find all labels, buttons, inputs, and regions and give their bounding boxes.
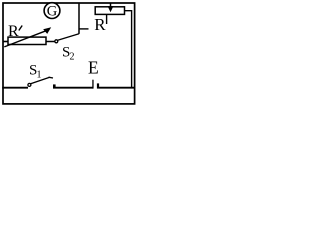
wire: middle horizontal wire (battery/switch row) y=87.7: [2, 87, 134, 89]
wire: R right terminal to right vertical: [125, 11, 132, 88]
switch S1: lever tip hook: [49, 76, 54, 79]
switch S2: lever: [58, 34, 79, 41]
galvanometer U1: circle G: [44, 3, 60, 20]
svg-text:G: G: [47, 3, 58, 19]
svg-text:2: 2: [70, 52, 75, 63]
switch S1: contact dot: [28, 83, 31, 86]
potentiometer slider arrow from top wire: [108, 3, 114, 13]
resistor R2: potentiometer box R: [95, 7, 124, 15]
svg-text:1: 1: [37, 70, 42, 81]
switch S1: fixed contact nub: [53, 84, 56, 87]
battery E: long plate: [92, 80, 93, 89]
resistor R1: rheostat box: [8, 37, 46, 44]
svg-text:E: E: [88, 58, 99, 78]
label R' (rheostat): [8, 23, 22, 40]
wire: stub from left border to rheostat: [3, 41, 9, 43]
label S2: [62, 45, 75, 63]
wire: outer border loop: [3, 3, 135, 104]
battery E: short thick plate: [97, 83, 99, 88]
rheostat arrow (slider): [4, 27, 51, 47]
wire: S2 riser up to top wire: [78, 3, 80, 34]
wire: rheostat to S2 dot: [46, 41, 55, 43]
label S1: [29, 63, 42, 81]
wire: R left terminal down and left to riser: [79, 14, 107, 29]
switch S2: contact dot: [55, 40, 58, 43]
svg-text:R: R: [94, 15, 106, 34]
switch S1: lever: [31, 77, 50, 83]
